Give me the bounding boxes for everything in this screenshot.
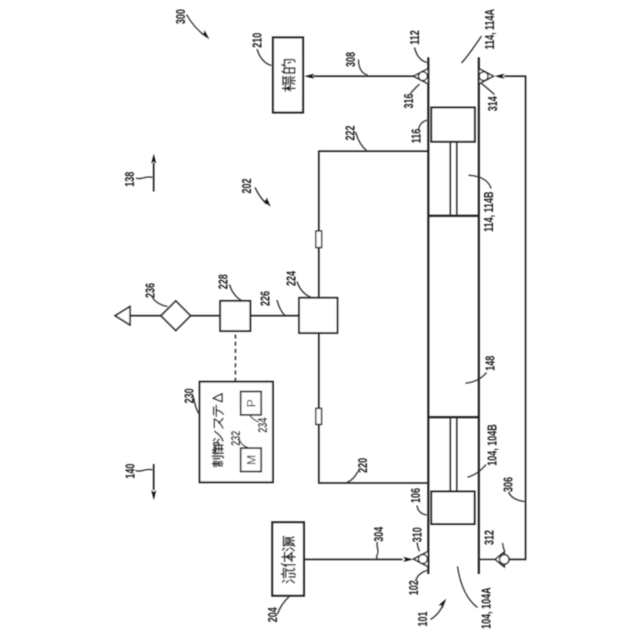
leader 220 [347, 472, 358, 483]
wire diamond-228 [191, 315, 221, 317]
katakana te of システム [214, 405, 224, 416]
leader 138 [136, 177, 153, 179]
M box 232 [241, 448, 262, 472]
svg-text:314: 314 [486, 96, 500, 111]
svg-text:104, 104B: 104, 104B [486, 424, 500, 466]
nozzle 314 triangle [479, 69, 494, 84]
svg-text:138: 138 [124, 172, 138, 187]
leader 210 [257, 49, 272, 66]
nozzle 312 ball [500, 555, 509, 564]
direction arrow 140 [153, 464, 155, 490]
leader 222 [356, 132, 367, 150]
kanji sei of 制御システム [212, 456, 223, 467]
kanji ryuu of 流体源 fluid-source text [281, 568, 295, 582]
svg-text:234: 234 [257, 418, 271, 433]
katakana mu of システム [213, 394, 222, 402]
svg-text:232: 232 [229, 431, 243, 446]
leader 228 [230, 285, 242, 301]
arrowhead of 300 [201, 30, 211, 41]
arrowhead 138 [151, 154, 156, 164]
leader 204 [278, 596, 290, 614]
diamond 236 [161, 301, 191, 331]
nozzle 310 ball [418, 555, 427, 564]
svg-text:101: 101 [417, 611, 431, 626]
leader 148 [466, 373, 487, 384]
svg-text:312: 312 [483, 530, 497, 545]
arrowhead supply [403, 557, 413, 562]
nozzle 112 triangle [414, 69, 429, 84]
piston plate right [428, 215, 479, 217]
housing bottom wall [478, 57, 480, 574]
leader 234 [250, 415, 259, 422]
svg-text:112: 112 [408, 30, 422, 44]
nozzle 112 ball [419, 72, 428, 81]
svg-text:202: 202 [241, 178, 255, 193]
nozzle 312 stub wire [479, 558, 495, 560]
leader 300 [187, 15, 207, 37]
svg-text:236: 236 [144, 283, 158, 298]
leader 304 [376, 542, 378, 559]
svg-text:224: 224 [285, 271, 299, 286]
P box 234 [241, 392, 262, 415]
svg-text:220: 220 [357, 458, 371, 473]
fluid source box 204 [272, 522, 304, 595]
housing top wall 148 [427, 57, 429, 574]
kanji hyou of 標的 target-box text [282, 76, 295, 91]
svg-text:148: 148 [484, 356, 498, 371]
kanji teki of 標的 target-box text [282, 60, 295, 73]
leader 114-114B [469, 175, 492, 188]
discharge line 308 [313, 75, 413, 77]
svg-text:210: 210 [251, 33, 265, 48]
svg-text:316: 316 [403, 93, 417, 108]
leader 308 [359, 60, 368, 76]
leader 101 [431, 603, 444, 620]
svg-text:308: 308 [345, 52, 359, 67]
nozzle 314 ball [479, 72, 488, 81]
pilot line 222 [319, 151, 429, 298]
leader 106 [417, 506, 427, 516]
svg-text:114, 114B: 114, 114B [483, 191, 497, 232]
leader 104-104B [468, 465, 487, 478]
piston plate left [428, 416, 479, 418]
leader 140 [136, 469, 153, 471]
svg-text:204: 204 [267, 607, 281, 622]
svg-text:M: M [244, 455, 258, 465]
katakana shi of システム [214, 431, 223, 441]
kanji gen of 流体源 [283, 536, 295, 550]
arrowhead 140 [151, 490, 156, 500]
svg-text:230: 230 [183, 388, 197, 403]
leader 116 [419, 120, 428, 130]
svg-text:102: 102 [407, 580, 421, 595]
piston box 116 [431, 108, 475, 142]
wire vent-diamond [130, 315, 161, 317]
nozzle 310 triangle [414, 551, 429, 566]
arrowhead into nozzle 314 [495, 74, 505, 79]
leader 112 [415, 48, 428, 63]
wire 228-224 [250, 315, 299, 317]
valve box 228 [220, 301, 250, 331]
leader 102 [416, 571, 428, 582]
leader 232 [239, 440, 249, 448]
svg-text:228: 228 [217, 274, 231, 289]
arrowhead of 101 [438, 597, 448, 608]
katakana su of システム [214, 419, 223, 428]
svg-text:304: 304 [373, 527, 387, 542]
svg-text:300: 300 [175, 9, 189, 24]
leader 306 [509, 492, 525, 502]
svg-text:106: 106 [410, 488, 424, 503]
leader 230 [194, 397, 200, 414]
connector tick on 222 [316, 231, 322, 248]
vent triangle [115, 307, 130, 325]
svg-text:P: P [244, 399, 258, 407]
leader 114-114A [462, 36, 482, 63]
svg-text:226: 226 [259, 291, 273, 306]
control system box 230 [200, 382, 273, 483]
arrowhead into target box [304, 74, 314, 79]
leader 104-104A [458, 567, 478, 608]
pilot line 220 [319, 333, 429, 483]
direction arrow 138 [153, 163, 155, 192]
leader 224 [297, 282, 312, 298]
leader 310 [417, 543, 420, 552]
leader 226 [277, 300, 285, 316]
piston box 106 [431, 492, 474, 525]
svg-text:116: 116 [410, 129, 424, 143]
svg-text:222: 222 [344, 125, 358, 140]
leader 316 [411, 84, 420, 93]
kanji tai of 流体源 [281, 552, 295, 566]
svg-text:306: 306 [502, 477, 516, 492]
leader 314 [480, 83, 494, 95]
supply line 304 [304, 558, 403, 560]
leader 236 [153, 298, 168, 307]
leader 312 [503, 543, 505, 552]
svg-text:310: 310 [411, 527, 425, 542]
connector tick on 220 [316, 408, 322, 424]
target box 210 [273, 38, 303, 113]
kanji gyo of 制御システム [213, 443, 224, 454]
valve box 224 [299, 298, 337, 333]
return line 306 [504, 76, 525, 559]
dashed control line [234, 331, 236, 382]
svg-text:140: 140 [124, 464, 138, 479]
svg-text:104, 104A: 104, 104A [480, 587, 494, 629]
arrowhead of 202 [263, 197, 273, 208]
piston rod right (two lines) [450, 142, 457, 215]
leader 202 [255, 188, 267, 205]
svg-text:114, 114A: 114, 114A [484, 9, 498, 50]
piston rod left (two lines) [450, 418, 457, 491]
nozzle 312 triangle [495, 552, 504, 567]
